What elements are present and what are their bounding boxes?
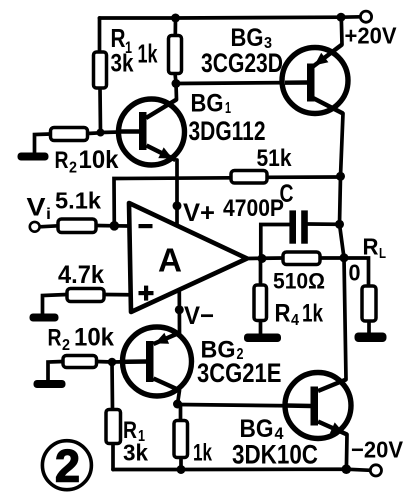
svg-text:2: 2 (62, 337, 70, 354)
wire 1k top lead (173, 18, 177, 36)
svg-text:3CG21E: 3CG21E (197, 358, 282, 388)
svg-text:10k: 10k (79, 146, 119, 174)
svg-text:L: L (379, 245, 386, 262)
svg-text:R: R (111, 23, 126, 53)
resistor R4 1k (254, 285, 323, 329)
wire capacitor left branch (261, 225, 290, 259)
svg-text:3DK10C: 3DK10C (232, 440, 318, 470)
svg-text:+20V: +20V (345, 23, 398, 49)
node V- pin (175, 305, 184, 314)
resistor 4.7k (58, 261, 104, 302)
wire feedback right segment (267, 175, 341, 179)
svg-text:1: 1 (225, 100, 231, 117)
svg-text:3k: 3k (123, 440, 148, 466)
ground (R4) (244, 334, 281, 343)
svg-text:1k: 1k (302, 300, 323, 328)
node BG2 base (108, 358, 117, 367)
terminal Vi input (30, 222, 40, 232)
resistor RL load (362, 234, 386, 322)
svg-text:1k: 1k (193, 440, 212, 467)
svg-text:R: R (363, 234, 379, 260)
wire BG3 emitter riser (339, 17, 343, 44)
svg-text:5.1k: 5.1k (55, 188, 101, 214)
svg-text:R: R (48, 325, 62, 352)
wire capacitor right branch (308, 222, 340, 226)
svg-text:3DG112: 3DG112 (189, 116, 266, 146)
wire base bus to BG3 (176, 83, 308, 84)
transistor Q3 BG3 3CG23D (201, 24, 348, 114)
wire BG2 base node down to R1 3k (110, 362, 114, 410)
resistor R2 10k (lower) (48, 324, 115, 368)
wire R1 3k bottom lead (98, 88, 102, 133)
wire R4 bottom lead to ground (259, 321, 263, 336)
transistor Q4 BG4 3DK10C (232, 373, 351, 470)
wire BG1 collector riser (174, 84, 178, 100)
wire right bus from feedback node to output node (340, 176, 345, 257)
ground (RL) (355, 333, 387, 343)
wire RL bottom lead to ground (367, 321, 371, 334)
wire top rail +20V (100, 17, 361, 18)
wire opamp apex to 510 ohm (247, 256, 283, 260)
svg-text:i: i (46, 206, 51, 223)
wire V- lead (177, 291, 181, 333)
svg-text:−20V: −20V (351, 437, 404, 463)
wire bottom rail -20V (113, 469, 371, 470)
node bottom rail / BG4 emitter (342, 464, 352, 474)
svg-text:1k: 1k (138, 39, 158, 69)
wire BG1 base (101, 132, 141, 133)
resistor R2 10k (upper) (51, 128, 119, 177)
svg-text:2: 2 (55, 441, 80, 492)
node BG1 base (97, 129, 105, 137)
svg-text:3CG23D: 3CG23D (201, 48, 283, 78)
node inverting input (110, 221, 120, 231)
svg-text:10k: 10k (74, 324, 114, 352)
svg-text:A: A (158, 242, 182, 279)
wire 5.1k to inverting input (96, 224, 130, 228)
wire BG2 collector drop (178, 391, 180, 405)
wire BG2 base (112, 360, 147, 364)
transistor Q2 BG2 3CG21E (123, 327, 282, 396)
wire BG3 collector drop (341, 114, 344, 177)
wire output to RL (344, 258, 369, 286)
node capacitor right (335, 220, 344, 229)
svg-text:R: R (55, 147, 69, 174)
wire 4.7k right lead to non-inverting input (104, 293, 130, 297)
wire 1k lower top lead (179, 404, 183, 421)
resistor 5.1k input (55, 188, 101, 233)
resistor R1 3k (top left) (94, 23, 134, 88)
svg-text:BG: BG (191, 90, 224, 118)
wire R2 10k left lead to ground (35, 134, 51, 154)
node BG2 collector / BG4 base (173, 400, 182, 409)
resistor 510 ohm (273, 252, 325, 294)
wire R2 10k lower left lead to ground (48, 362, 63, 382)
node V+ pin (173, 201, 182, 210)
wire 1k lower bottom lead (179, 458, 183, 470)
wire left drop to R1 3k top (98, 18, 102, 53)
wire Vi terminal to 5.1k (40, 226, 58, 227)
svg-text:V−: V− (184, 302, 214, 330)
resistor 1k (bottom) (174, 421, 212, 467)
terminal -20V (370, 465, 381, 476)
terminal +20V (360, 11, 371, 22)
node +20V rail / BG3 emitter (337, 13, 346, 22)
svg-text:0: 0 (349, 260, 361, 286)
label figure number 2 (42, 441, 91, 492)
resistor R1 3k (bottom left) (106, 410, 148, 466)
wire R1 3k bottom lead to rail (111, 444, 115, 470)
ground (4.7k) (30, 314, 59, 322)
node bottom rail / 1k (177, 465, 186, 474)
resistor 1k (top, BG1 collector) (138, 36, 182, 74)
node output bus (340, 253, 349, 262)
svg-text:4700P: 4700P (223, 195, 284, 222)
wire 4.7k left lead to ground (43, 295, 68, 316)
node BG1 collector / BG3 base (172, 79, 181, 88)
wire R2 10k right lead (88, 131, 101, 135)
svg-text:4: 4 (291, 312, 299, 329)
wire BG4 emitter drop (345, 435, 349, 470)
wire output node to 510 ohm (320, 256, 344, 260)
svg-text:2: 2 (69, 160, 77, 177)
svg-text:3k: 3k (111, 50, 134, 78)
wire 1k bottom lead (175, 73, 176, 84)
wire V+ lead (175, 160, 179, 227)
node junction dots (97, 13, 352, 474)
wire BG4 collector riser to output (344, 258, 346, 380)
svg-text:R: R (275, 300, 291, 328)
ground (R2 upper) (18, 153, 49, 161)
svg-text:4.7k: 4.7k (58, 261, 104, 289)
svg-text:51k: 51k (257, 145, 293, 172)
ground (R2 lower) (34, 380, 66, 388)
capacitor C 4700P (223, 180, 308, 244)
wire R2 10k lower right lead (97, 360, 113, 364)
svg-text:510Ω: 510Ω (273, 269, 325, 294)
op-amp U1 A (129, 203, 247, 312)
node op-amp output (258, 254, 267, 263)
wire R4 top lead (259, 259, 263, 286)
transistor Q1 BG1 3DG112 (118, 90, 266, 166)
wire feedback left segment down to inverting node (114, 178, 231, 226)
svg-text:V+: V+ (183, 199, 215, 227)
resistor 51k feedback (231, 145, 292, 183)
svg-text:V: V (27, 194, 46, 222)
node feedback / BG3 collector (336, 172, 345, 181)
wire collector bus to BG4 base (178, 405, 312, 407)
node 1k/top rail (171, 14, 180, 23)
